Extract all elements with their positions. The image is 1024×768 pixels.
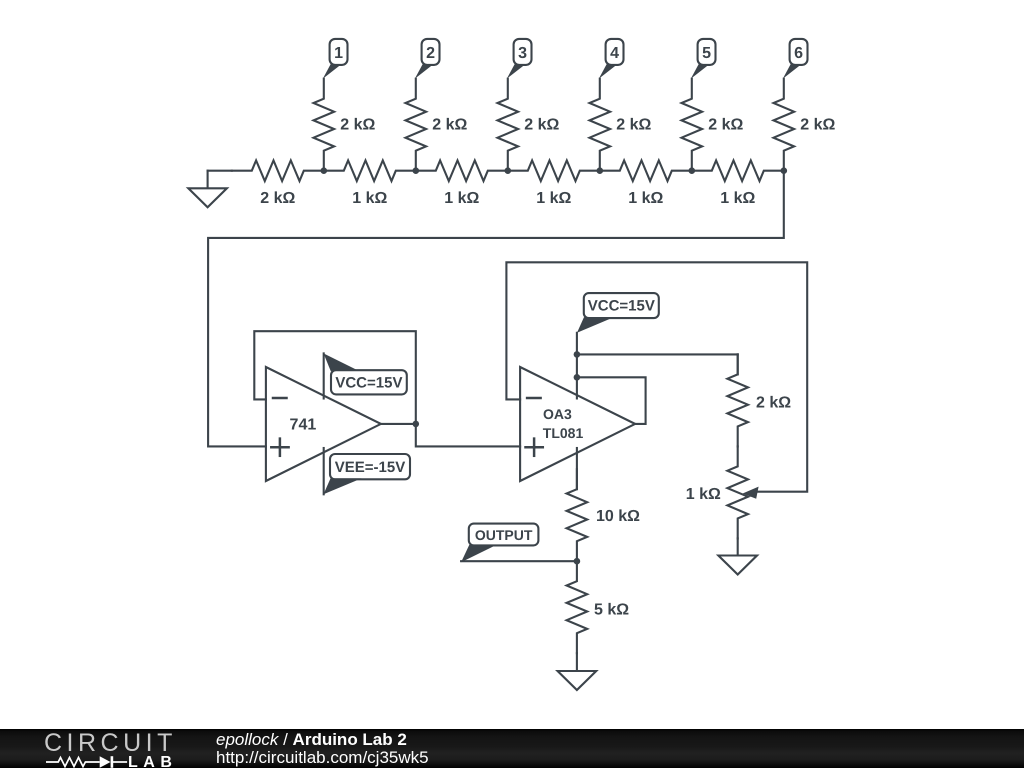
- svg-text:2 kΩ: 2 kΩ: [432, 117, 467, 134]
- svg-text:6: 6: [794, 45, 803, 62]
- svg-text:5: 5: [702, 45, 711, 62]
- svg-text:1: 1: [334, 45, 343, 62]
- svg-text:1 kΩ: 1 kΩ: [628, 190, 663, 207]
- svg-text:VEE=-15V: VEE=-15V: [335, 459, 405, 476]
- svg-text:2 kΩ: 2 kΩ: [800, 117, 835, 134]
- svg-text:1 kΩ: 1 kΩ: [352, 190, 387, 207]
- svg-text:VCC=15V: VCC=15V: [588, 297, 655, 314]
- svg-text:2 kΩ: 2 kΩ: [340, 117, 375, 134]
- svg-text:1 kΩ: 1 kΩ: [720, 190, 755, 207]
- svg-text:10 kΩ: 10 kΩ: [596, 508, 640, 525]
- svg-text:1 kΩ: 1 kΩ: [686, 486, 721, 503]
- svg-text:2: 2: [426, 45, 435, 62]
- svg-text:1 kΩ: 1 kΩ: [444, 190, 479, 207]
- svg-text:2 kΩ: 2 kΩ: [708, 117, 743, 134]
- svg-text:4: 4: [610, 45, 619, 62]
- svg-text:2 kΩ: 2 kΩ: [524, 117, 559, 134]
- svg-text:1 kΩ: 1 kΩ: [536, 190, 571, 207]
- svg-text:3: 3: [518, 45, 527, 62]
- svg-text:OA3: OA3: [543, 406, 572, 422]
- svg-text:5 kΩ: 5 kΩ: [594, 602, 629, 619]
- svg-text:OUTPUT: OUTPUT: [475, 527, 533, 543]
- svg-text:741: 741: [290, 416, 317, 433]
- svg-text:2 kΩ: 2 kΩ: [616, 117, 651, 134]
- svg-text:2 kΩ: 2 kΩ: [260, 190, 295, 207]
- svg-text:2 kΩ: 2 kΩ: [756, 395, 791, 412]
- svg-text:VCC=15V: VCC=15V: [335, 375, 402, 392]
- svg-text:TL081: TL081: [543, 425, 584, 441]
